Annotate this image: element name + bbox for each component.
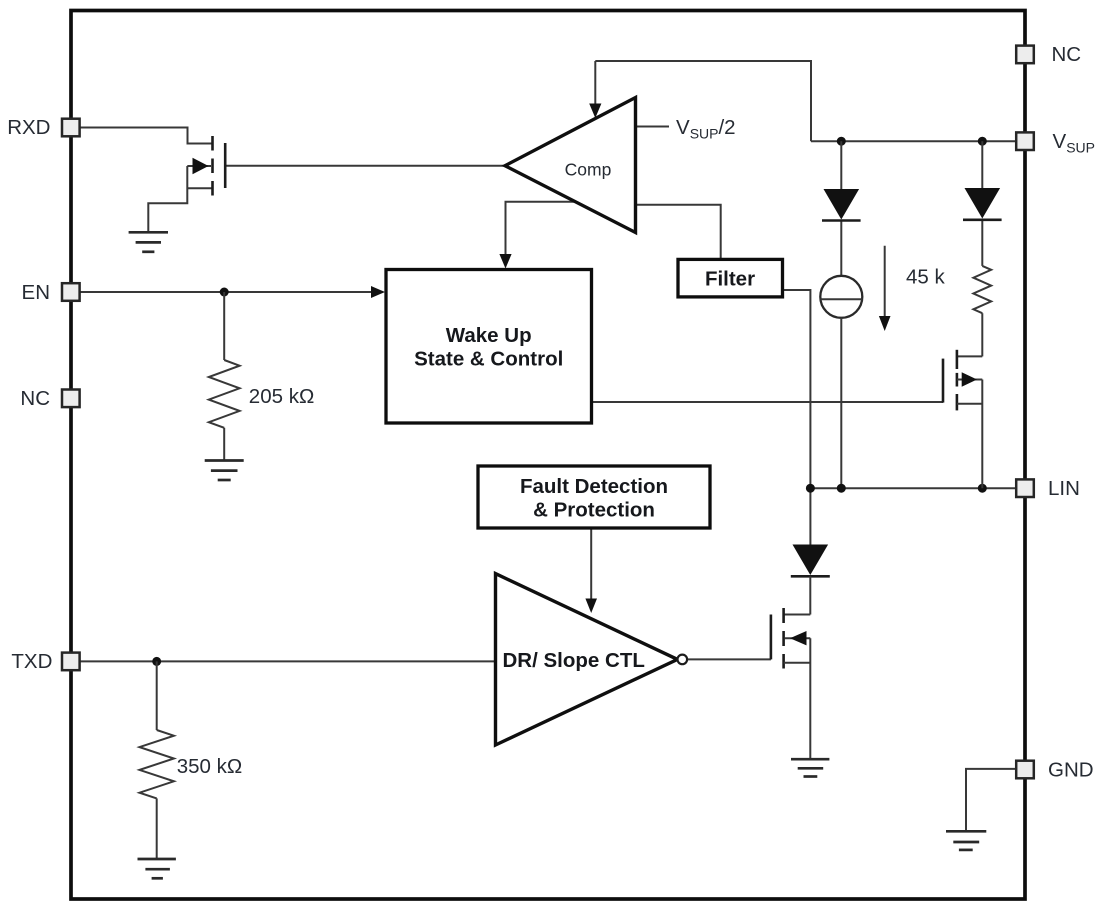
svg-text:& Protection: & Protection: [533, 499, 655, 522]
svg-text:TXD: TXD: [11, 650, 52, 673]
svg-text:LIN: LIN: [1048, 477, 1080, 500]
svg-text:350 kΩ: 350 kΩ: [177, 755, 242, 778]
svg-text:State & Control: State & Control: [414, 348, 563, 371]
svg-text:RXD: RXD: [7, 116, 50, 139]
svg-text:Comp: Comp: [565, 160, 612, 180]
svg-text:205 kΩ: 205 kΩ: [249, 385, 314, 408]
svg-text:Wake Up: Wake Up: [446, 324, 532, 347]
svg-text:45 k: 45 k: [906, 266, 945, 289]
svg-text:GND: GND: [1048, 758, 1094, 781]
svg-text:Fault Detection: Fault Detection: [520, 475, 668, 498]
svg-text:Filter: Filter: [705, 268, 755, 291]
svg-text:DR/ Slope CTL: DR/ Slope CTL: [503, 649, 645, 672]
svg-text:EN: EN: [22, 281, 50, 304]
svg-text:NC: NC: [20, 387, 50, 410]
svg-text:NC: NC: [1052, 43, 1082, 66]
